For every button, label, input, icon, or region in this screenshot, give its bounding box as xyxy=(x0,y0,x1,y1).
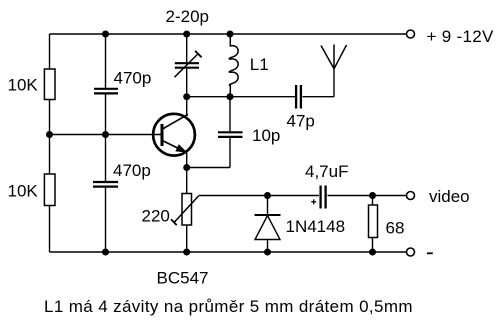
svg-text:video: video xyxy=(429,187,470,206)
svg-text:10p: 10p xyxy=(252,126,280,145)
svg-text:2-20p: 2-20p xyxy=(166,7,209,26)
svg-text:+ 9 -12V: + 9 -12V xyxy=(427,27,494,46)
svg-text:220: 220 xyxy=(142,207,170,226)
svg-text:1N4148: 1N4148 xyxy=(286,217,346,236)
svg-text:4,7uF: 4,7uF xyxy=(305,162,348,181)
svg-text:10K: 10K xyxy=(8,182,39,201)
svg-text:68: 68 xyxy=(386,219,405,238)
svg-text:10K: 10K xyxy=(8,76,39,95)
svg-text:470p: 470p xyxy=(114,69,152,88)
svg-text:BC547: BC547 xyxy=(157,269,209,288)
svg-text:L1 má 4 závity na průměr 5 mm: L1 má 4 závity na průměr 5 mm drátem 0,5… xyxy=(44,297,413,316)
svg-text:L1: L1 xyxy=(250,55,269,74)
svg-text:47p: 47p xyxy=(287,112,315,131)
svg-text:470p: 470p xyxy=(113,161,151,180)
